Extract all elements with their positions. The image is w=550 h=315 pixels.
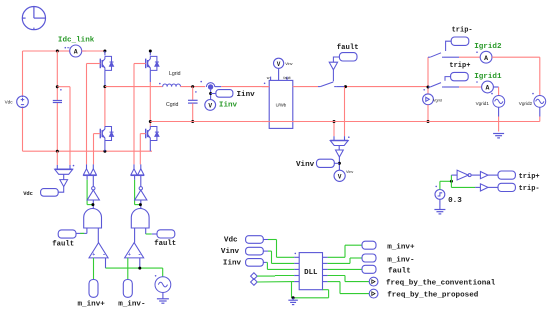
svg-text:fault: fault: [388, 268, 411, 276]
svg-text:V: V: [338, 173, 342, 180]
svg-text:fault: fault: [283, 76, 291, 80]
svg-text:Vdc: Vdc: [224, 236, 238, 244]
svg-text:A: A: [486, 85, 490, 92]
svg-text:freq_by_the_proposed: freq_by_the_proposed: [387, 291, 479, 299]
svg-text:A: A: [74, 49, 78, 56]
svg-text:fault: fault: [52, 240, 74, 248]
svg-text:V: V: [208, 103, 212, 110]
svg-text:Cgrid: Cgrid: [166, 102, 179, 108]
svg-text:Vdc: Vdc: [5, 100, 14, 105]
svg-text:Iinv: Iinv: [223, 259, 242, 267]
svg-text:U/Wb: U/Wb: [276, 103, 287, 108]
svg-text:Iinv: Iinv: [237, 91, 256, 99]
svg-text:Vinv: Vinv: [296, 161, 315, 169]
svg-text:m_inv-: m_inv-: [118, 300, 145, 308]
svg-text:+: +: [128, 252, 131, 258]
svg-text:trip-: trip-: [519, 185, 540, 193]
svg-text:Vdc: Vdc: [23, 191, 33, 197]
svg-text:freq_by_the_conventional: freq_by_the_conventional: [386, 279, 496, 287]
svg-text:0.3: 0.3: [448, 197, 462, 205]
svg-text:Vgrid: Vgrid: [433, 99, 442, 103]
svg-text:Lgrid: Lgrid: [169, 71, 181, 77]
svg-text:Igrid1: Igrid1: [474, 73, 502, 81]
svg-text:Vinv: Vinv: [221, 248, 240, 256]
svg-text:-: -: [102, 251, 106, 258]
svg-text:m_inv-: m_inv-: [387, 256, 414, 264]
svg-text:Vinv: Vinv: [346, 170, 353, 174]
svg-text:fault: fault: [154, 240, 176, 248]
svg-text:m_inv+: m_inv+: [387, 244, 415, 252]
svg-text:w: w: [267, 76, 270, 80]
svg-text:Vinv: Vinv: [285, 62, 292, 66]
svg-text:+: +: [92, 252, 95, 258]
svg-text:trip+: trip+: [449, 62, 470, 70]
svg-text:Idc_link: Idc_link: [58, 37, 95, 45]
svg-text:Vgrid2: Vgrid2: [519, 101, 533, 106]
svg-text:DLL: DLL: [304, 269, 318, 277]
svg-text:-: -: [138, 251, 142, 258]
svg-text:trip-: trip-: [452, 27, 473, 35]
svg-text:fault: fault: [337, 44, 359, 52]
svg-text:A: A: [484, 55, 488, 62]
svg-text:trip+: trip+: [519, 173, 540, 181]
svg-text:Igrid2: Igrid2: [474, 43, 502, 51]
svg-text:m_inv+: m_inv+: [78, 300, 106, 308]
svg-text:Iinv: Iinv: [219, 102, 238, 110]
svg-text:Vgrid1: Vgrid1: [476, 101, 490, 106]
svg-text:V: V: [277, 61, 281, 68]
